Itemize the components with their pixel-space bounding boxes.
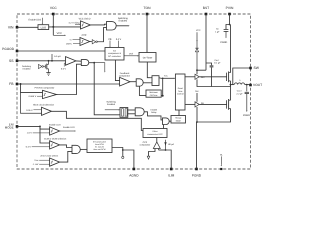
comparator CCM DCM selection xyxy=(50,141,60,149)
gate AND switching-enable xyxy=(107,22,117,30)
svg-text:comparator: comparator xyxy=(119,75,130,78)
svg-text:6.5 µA: 6.5 µA xyxy=(54,55,61,58)
gate AND hiccup xyxy=(163,118,170,125)
wire OTP to inverter xyxy=(90,41,92,43)
pin TON xyxy=(146,13,149,16)
wire AND to hiccup AND xyxy=(144,112,162,120)
wire PGOOD line xyxy=(17,50,105,52)
svg-text:Control: Control xyxy=(177,92,184,95)
wire GL driver to LS gate xyxy=(199,103,226,105)
svg-text:VCC: VCC xyxy=(196,29,201,32)
svg-text:OTP: OTP xyxy=(82,34,87,37)
pin VCC xyxy=(52,13,55,16)
wire latch output tap to min-off timer xyxy=(161,78,163,95)
svg-text:PVIN: PVIN xyxy=(226,6,234,10)
block DCM entry logic xyxy=(87,139,112,153)
block If four consecutive OCP xyxy=(143,129,167,138)
svg-text:If 8 consecutive: If 8 consecutive xyxy=(93,140,106,143)
wire inductor to VOUT pin xyxy=(245,84,251,86)
wire SS line xyxy=(17,60,66,62)
capacitor COUT 2.2uF xyxy=(246,85,248,92)
pin VIN xyxy=(16,26,19,29)
wire EN to mode comp xyxy=(40,126,50,143)
block restart latch xyxy=(120,108,128,118)
wire GH driver return to SW xyxy=(197,79,231,86)
wire enable from SS AND xyxy=(94,63,120,115)
wire SS comp to AND xyxy=(76,60,81,62)
svg-text:SW: SW xyxy=(254,66,260,70)
wire OCP left input to ground xyxy=(149,149,156,157)
pin PGND xyxy=(195,168,198,171)
comparator Enable LDO xyxy=(50,127,60,135)
svg-text:Mode: Mode xyxy=(176,119,182,122)
svg-text:consecutive OCP: consecutive OCP xyxy=(147,133,163,136)
svg-text:On-Timer: On-Timer xyxy=(143,56,153,59)
svg-text:SW: SW xyxy=(195,90,198,93)
pin FB xyxy=(16,83,19,86)
node open terminal xyxy=(122,156,124,158)
svg-text:Enabled: Enabled xyxy=(23,67,31,70)
wire AND to DCM box xyxy=(80,148,87,150)
svg-text:BST: BST xyxy=(203,6,209,10)
wire GH driver to HS gate xyxy=(199,76,226,78)
wire SW rail to inductor xyxy=(231,84,235,86)
wire OCP comp to box xyxy=(156,138,158,142)
pin BST xyxy=(205,13,208,16)
wire SW rail to LS drain xyxy=(230,98,232,101)
wire AND to latch xyxy=(143,82,151,84)
svg-text:VOUT: VOUT xyxy=(253,83,262,87)
junction enable node xyxy=(93,62,95,64)
svg-text:VCC: VCC xyxy=(57,32,62,35)
svg-text:0.4 V: 0.4 V xyxy=(116,38,122,41)
svg-text:Short circuit detection: Short circuit detection xyxy=(33,104,55,107)
svg-text:comparator: comparator xyxy=(140,144,151,147)
svg-text:PGND: PGND xyxy=(243,114,250,117)
junction VOUT cap tap xyxy=(246,84,248,86)
junction FB branch xyxy=(20,83,22,85)
block Hiccup Mode xyxy=(171,116,186,124)
wire FB line xyxy=(17,83,120,85)
regulator LDO xyxy=(38,25,49,30)
svg-text:FB: FB xyxy=(9,82,14,86)
gate AND dcm xyxy=(72,145,80,153)
svg-text:VIN: VIN xyxy=(8,25,14,29)
pin ILIM xyxy=(170,168,173,171)
wire to ILIM pin xyxy=(166,150,172,169)
wire HS source to SW rail xyxy=(230,81,232,98)
svg-text:DC correction: DC correction xyxy=(108,55,122,58)
svg-text:2.2 µF: 2.2 µF xyxy=(236,93,243,96)
junction VCC rail xyxy=(52,26,54,28)
pin VOUT xyxy=(249,84,252,87)
comparator SS ready xyxy=(66,57,76,66)
latch PWM xyxy=(152,76,159,86)
svg-text:CCM or DCM selection: CCM or DCM selection xyxy=(44,137,67,140)
ground arrow OCP xyxy=(147,156,150,159)
svg-text:SS: SS xyxy=(9,59,14,63)
node enable signal arrow xyxy=(94,63,105,71)
wire min-off to AND xyxy=(139,86,146,95)
inverter after OTP xyxy=(92,40,96,44)
wire DCM box to terminal xyxy=(112,148,123,157)
gate AND pwm-set xyxy=(136,79,143,86)
wire VIN to LDO xyxy=(17,26,38,28)
svg-text:0.685 V: 0.685 V xyxy=(29,95,37,98)
wire FB to SC comp xyxy=(21,92,42,113)
wire UVLO output xyxy=(90,23,106,26)
wire EN line xyxy=(17,125,40,127)
wire zc comp to AND xyxy=(60,151,72,162)
comparator short-circuit detection xyxy=(42,107,52,115)
wire PVIN rail to HS drain xyxy=(229,14,231,25)
svg-text:1.0 V: 1.0 V xyxy=(27,132,33,135)
svg-text:Feedback: Feedback xyxy=(120,72,131,75)
IC boundary dashed box xyxy=(17,14,251,169)
svg-text:if 1 non-ZC: if 1 non-ZC xyxy=(95,146,105,149)
svg-text:-1 mV: -1 mV xyxy=(33,163,39,166)
svg-text:Enable LDO: Enable LDO xyxy=(63,126,75,129)
svg-text:80 µA: 80 µA xyxy=(168,143,174,146)
wire GL driver return xyxy=(196,107,198,122)
svg-text:then exit DCM: then exit DCM xyxy=(94,148,106,151)
wire VCC pin drop xyxy=(52,14,54,35)
wire block to hiccup xyxy=(178,110,180,116)
svg-text:150°C: 150°C xyxy=(66,42,73,45)
svg-text:Switching: Switching xyxy=(106,101,116,104)
wire to AGND pin xyxy=(123,150,134,169)
svg-text:Off-Time: Off-Time xyxy=(150,94,159,97)
svg-text:Enable LDO: Enable LDO xyxy=(49,123,61,126)
junction PVIN cap tap xyxy=(229,24,231,26)
svg-text:4.2 V rising: 4.2 V rising xyxy=(69,22,81,25)
svg-text:ILIM: ILIM xyxy=(168,174,175,178)
block Dead Time Control xyxy=(175,74,185,110)
wire BST rail xyxy=(205,14,207,70)
wire EN to enable comp xyxy=(40,126,50,129)
svg-text:PGOOD: PGOOD xyxy=(2,47,15,51)
wire AND to hiccup xyxy=(169,120,171,122)
pin PGOOD xyxy=(16,50,19,53)
wire TON pin to on-timer xyxy=(146,14,148,53)
gate AND enable-delay xyxy=(135,108,144,116)
svg-text:TON: TON xyxy=(144,6,152,10)
pin PVIN xyxy=(228,13,231,16)
svg-text:Enable LDO: Enable LDO xyxy=(28,19,41,22)
current source 80uA xyxy=(158,149,160,151)
svg-text:PGND: PGND xyxy=(220,41,227,44)
wire PGOOD comp up to AND xyxy=(57,64,82,94)
diode bootstrap xyxy=(195,47,198,49)
svg-text:Switching: Switching xyxy=(22,65,32,68)
wire OCP box to AND xyxy=(163,125,165,129)
svg-text:PGOOD comparator: PGOOD comparator xyxy=(35,87,55,90)
junction SS charge node xyxy=(51,60,53,62)
svg-text:FB: FB xyxy=(109,38,112,41)
svg-text:AGND: AGND xyxy=(129,174,139,178)
inductor L xyxy=(234,83,245,85)
junction SW rail xyxy=(230,84,232,86)
wire comparator to AND xyxy=(130,81,136,83)
capacitor CBST 0.1uF xyxy=(206,63,212,65)
transistor SS pulldown FET xyxy=(44,66,46,68)
svg-text:OCP: OCP xyxy=(143,141,148,144)
comparator Zero Cross Detect xyxy=(50,158,60,166)
svg-text:VCC UVLO: VCC UVLO xyxy=(79,18,91,21)
svg-text:PGND: PGND xyxy=(192,174,202,178)
wire SW riser to SW pin xyxy=(233,68,251,85)
driver GH xyxy=(195,74,199,79)
comparator OTP xyxy=(80,38,90,46)
svg-text:Vref: Vref xyxy=(129,53,133,56)
svg-text:0.6 V: 0.6 V xyxy=(61,67,67,70)
wire LDO output VCC rail xyxy=(49,26,81,28)
svg-text:Enabled: Enabled xyxy=(107,103,116,106)
wire LS source to PGND xyxy=(197,109,231,170)
wire AND out to enable xyxy=(89,62,94,64)
svg-text:MODE: MODE xyxy=(5,126,14,130)
wire block to GH driver xyxy=(185,76,195,78)
wire on-timer to latch xyxy=(147,62,150,78)
driver GL xyxy=(195,102,199,107)
wire block to GL driver xyxy=(185,103,195,105)
svg-text:then DCM: then DCM xyxy=(95,143,104,146)
svg-text:0.1 µF: 0.1 µF xyxy=(214,62,221,65)
block DAC comparison and DC correction xyxy=(105,48,124,61)
svg-text:Minimum: Minimum xyxy=(150,91,158,94)
svg-text:0.36 V: 0.36 V xyxy=(26,109,33,112)
current source 6.5uA xyxy=(51,54,53,59)
wire FB to PGOOD comp xyxy=(21,84,43,92)
junction driver supply xyxy=(196,69,198,71)
comparator Feedback xyxy=(120,77,130,86)
wire latch to AND top xyxy=(128,109,135,111)
ground SS FET source xyxy=(46,72,50,74)
transistor HS FET xyxy=(226,73,228,81)
pin AGND xyxy=(133,168,136,171)
capacitor CB 1uF on PVIN xyxy=(226,25,230,30)
comparator VCC UVLO xyxy=(81,21,91,29)
wire to GL driver supply xyxy=(196,93,198,102)
pin EN/MODE xyxy=(16,125,19,128)
transistor LS FET xyxy=(226,100,228,108)
svg-text:LDO: LDO xyxy=(41,27,46,30)
inverter SS discharge xyxy=(39,64,42,68)
block On-Timer xyxy=(139,53,156,63)
svg-text:1 µF: 1 µF xyxy=(215,30,220,33)
svg-text:Hiccup: Hiccup xyxy=(175,117,182,120)
svg-text:VCC: VCC xyxy=(50,6,58,10)
comparator PGOOD xyxy=(43,90,57,98)
svg-text:0.4 V: 0.4 V xyxy=(26,146,32,149)
wire latch to AND bottom xyxy=(128,113,135,115)
gate AND ss-pgood xyxy=(81,60,89,66)
wire Vref to feedback comparator xyxy=(115,60,119,81)
wire inverter to AND xyxy=(97,28,106,42)
svg-text:comparison &: comparison & xyxy=(108,52,121,55)
svg-text:Zero Cross Detect: Zero Cross Detect xyxy=(40,155,58,158)
wire BST to driver supply xyxy=(197,70,206,74)
svg-text:If four: If four xyxy=(152,130,157,133)
svg-text:Enable: Enable xyxy=(151,108,158,111)
svg-text:Enabled: Enabled xyxy=(119,20,128,23)
pin SW xyxy=(249,67,252,70)
wire SC comp to OCP box xyxy=(52,111,143,130)
pin SS xyxy=(16,60,19,63)
svg-text:Dead: Dead xyxy=(178,87,183,90)
svg-text:Switching: Switching xyxy=(118,17,129,20)
block Minimum Off-Time xyxy=(146,90,161,97)
wire mode comp to AND xyxy=(60,145,72,148)
